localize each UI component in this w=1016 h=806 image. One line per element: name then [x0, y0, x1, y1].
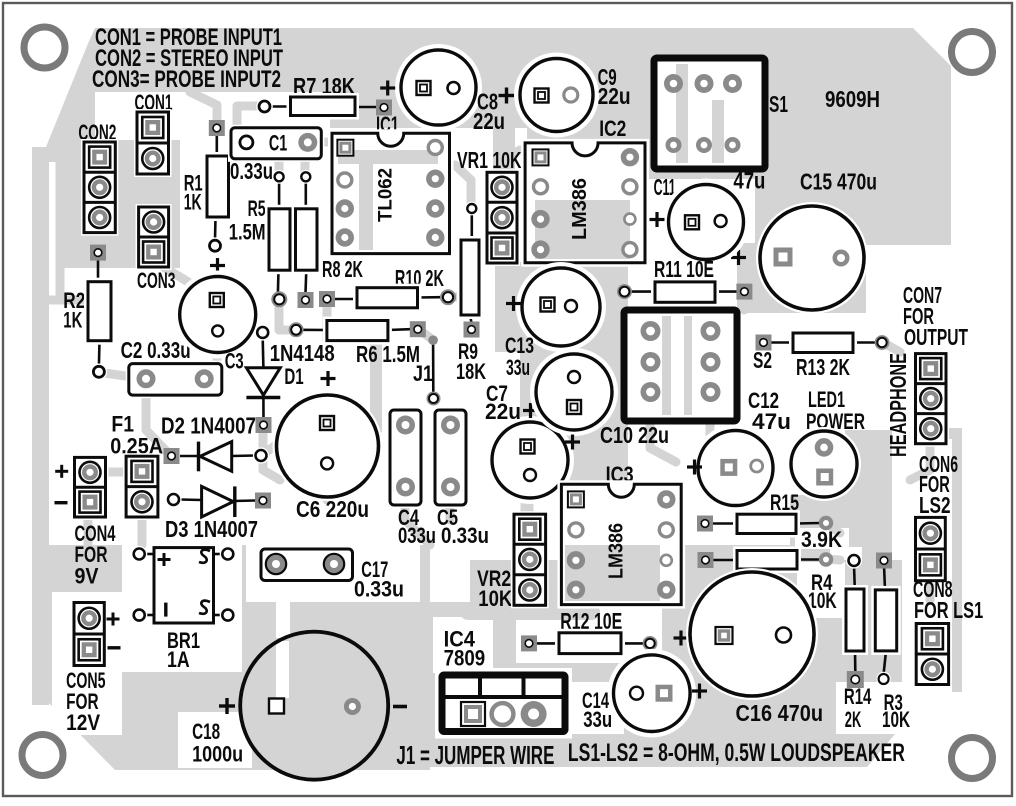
plus C10 — [565, 435, 580, 450]
label C13 — [505, 333, 534, 380]
label D1 — [284, 364, 303, 389]
amplifier IC3 LM386 — [557, 480, 685, 608]
label C15 470u — [800, 169, 877, 195]
legend text CON2 — [95, 45, 283, 72]
capacitor C13 — [516, 262, 606, 352]
svg-text:LS1-LS2 = 8-OHM, 0.5W LOUDSPEA: LS1-LS2 = 8-OHM, 0.5W LOUDSPEAKER — [568, 739, 905, 767]
fuse F1 — [123, 453, 161, 520]
capacitor C15 — [756, 202, 868, 314]
diode D1 — [246, 324, 280, 433]
svg-text:47u: 47u — [752, 409, 791, 434]
svg-text:10K: 10K — [882, 707, 910, 732]
capacitor C12 — [692, 425, 779, 512]
label C6 220u — [296, 496, 369, 522]
resistor R8 — [292, 170, 322, 308]
resistor R2 — [84, 245, 115, 381]
switch S2 — [624, 310, 737, 421]
legend text CON3 — [92, 66, 281, 93]
label C1 — [269, 131, 287, 156]
capacitor C8 — [395, 44, 482, 131]
label F1 — [110, 412, 163, 459]
svg-text:1N4148: 1N4148 — [270, 340, 335, 366]
capacitor C3 — [174, 271, 262, 359]
svg-text:22u: 22u — [598, 83, 631, 109]
resistor R12 — [521, 629, 657, 658]
label C11 — [654, 174, 676, 200]
label C1 value — [230, 158, 273, 184]
resistor R14 — [842, 552, 868, 688]
capacitor C6 — [273, 391, 383, 501]
label VR1 10K — [457, 147, 522, 173]
svg-text:D3 1N4007: D3 1N4007 — [165, 516, 258, 542]
regulator IC4 7809 — [435, 668, 572, 739]
svg-text:C18: C18 — [192, 719, 220, 744]
svg-text:R6 1.5M: R6 1.5M — [356, 341, 420, 367]
mounting hole top-right — [952, 32, 993, 73]
svg-text:D2 1N4007: D2 1N4007 — [161, 413, 256, 439]
amplifier IC2 LM386 — [521, 139, 649, 267]
pour patches inside components — [676, 64, 688, 163]
label R8 2K — [322, 256, 363, 282]
label R15 — [770, 490, 799, 515]
note J1 jumper — [396, 740, 554, 770]
svg-text:R8 2K: R8 2K — [322, 256, 363, 282]
svg-text:22u: 22u — [485, 399, 521, 424]
svg-text:R5: R5 — [248, 196, 266, 221]
mounting hole bottom-left — [22, 735, 63, 776]
svg-text:33u: 33u — [506, 355, 530, 380]
connector CON4 — [72, 454, 109, 520]
connector CON3 — [136, 204, 172, 270]
label R10 2K — [395, 265, 444, 291]
svg-text:S1: S1 — [769, 91, 788, 117]
label D2 1N4007 — [161, 413, 256, 439]
label R3 — [882, 690, 910, 732]
led LED1 — [787, 427, 861, 501]
board id 9609H — [825, 86, 880, 112]
label IC3 — [606, 462, 634, 487]
label C7 — [485, 381, 521, 424]
copper traces — [95, 232, 104, 253]
label R12 10E — [560, 608, 622, 634]
capacitor C10 — [530, 348, 618, 436]
label CON7 — [903, 282, 968, 350]
svg-text:C2 0.33u: C2 0.33u — [121, 337, 191, 363]
svg-text:LM386: LM386 — [606, 523, 628, 579]
svg-text:10K: 10K — [478, 586, 512, 611]
minus C18 — [393, 705, 407, 709]
svg-text:J1 = JUMPER WIRE: J1 = JUMPER WIRE — [396, 740, 554, 770]
svg-text:3.9K: 3.9K — [801, 527, 842, 552]
capacitor C2 — [126, 361, 225, 399]
connector CON6 — [913, 514, 949, 583]
svg-text:0.33u: 0.33u — [441, 523, 489, 548]
label LED1 — [806, 387, 865, 434]
svg-text:D1: D1 — [284, 364, 303, 389]
svg-text:7809: 7809 — [444, 646, 486, 671]
svg-text:FOR LS1: FOR LS1 — [914, 597, 983, 623]
svg-text:IC2: IC2 — [599, 116, 626, 141]
label IC1 — [376, 112, 399, 137]
label R14 — [844, 684, 872, 732]
svg-text:R14: R14 — [844, 684, 872, 709]
label C9 — [598, 64, 631, 109]
minus CON5 — [108, 646, 121, 649]
label CON5 — [66, 668, 105, 735]
label CON8 — [913, 576, 983, 623]
resistor R6 — [289, 317, 426, 345]
label C14 — [582, 688, 612, 732]
svg-text:C10 22u: C10 22u — [600, 422, 669, 448]
svg-text:0.33u: 0.33u — [354, 577, 404, 602]
label 47u S1 — [733, 168, 765, 194]
svg-text:C15 470u: C15 470u — [800, 169, 877, 195]
connector CON2 — [81, 139, 118, 236]
svg-text:C6 220u: C6 220u — [296, 496, 369, 522]
label BR1 — [167, 628, 200, 672]
svg-text:47u: 47u — [733, 168, 765, 194]
svg-text:033u: 033u — [398, 523, 436, 548]
label 3.9K — [801, 527, 842, 552]
pour cutouts — [122, 538, 242, 672]
preset VR1 — [484, 169, 520, 266]
label R11 10E — [654, 256, 714, 282]
capacitor C1 — [228, 125, 324, 162]
svg-text:CON3: CON3 — [137, 268, 176, 293]
svg-text:1000u: 1000u — [192, 742, 243, 767]
capacitor C7 — [486, 416, 574, 504]
capacitor C18 — [240, 632, 388, 780]
plus C8 left — [380, 81, 395, 96]
plus C7 — [523, 403, 538, 418]
capacitor C11 — [663, 179, 750, 266]
label CON1 — [135, 90, 173, 115]
resistor R9 — [457, 202, 483, 338]
plus CON5 — [107, 613, 120, 626]
svg-text:S2: S2 — [753, 347, 772, 373]
diode D2 — [164, 442, 270, 472]
plus C14 — [692, 684, 707, 699]
resistor R15 — [697, 510, 833, 537]
label CON3 — [137, 268, 176, 293]
note LS1-LS2 — [568, 739, 905, 767]
capacitor C5 — [432, 407, 469, 508]
label CON4 — [75, 521, 117, 588]
label C5 — [437, 505, 489, 548]
label VR2 — [477, 566, 512, 611]
label C3 — [225, 349, 244, 374]
label R9 — [456, 339, 486, 384]
svg-text:0.33u: 0.33u — [230, 158, 273, 184]
plus C11 — [650, 212, 665, 227]
resistor R11 — [617, 278, 752, 306]
label CON6 — [919, 451, 958, 518]
svg-text:R13 2K: R13 2K — [796, 354, 850, 380]
capacitor C17 — [258, 546, 356, 584]
label R2 — [63, 288, 85, 333]
capacitor C14 — [608, 649, 697, 738]
svg-text:22u: 22u — [473, 108, 505, 134]
svg-text:18K: 18K — [456, 359, 486, 384]
svg-text:HEADPHONE: HEADPHONE — [885, 353, 911, 457]
label R6 1.5M — [356, 341, 420, 367]
svg-text:J1: J1 — [413, 361, 433, 386]
capacitor C16 — [686, 568, 818, 700]
svg-text:C1: C1 — [269, 131, 287, 156]
label R13 2K — [796, 354, 850, 380]
capacitor C9 — [514, 53, 599, 138]
svg-text:9609H: 9609H — [825, 86, 880, 112]
svg-text:LM386: LM386 — [569, 178, 591, 240]
label C17 — [354, 557, 404, 602]
label R5 — [229, 196, 266, 245]
label C10 22u — [600, 422, 669, 448]
mounting hole top-left — [24, 27, 65, 68]
label S2 — [753, 347, 772, 373]
capacitor C4 — [387, 407, 424, 508]
svg-text:CON3= PROBE INPUT2: CON3= PROBE INPUT2 — [92, 66, 281, 93]
label IC2 — [599, 116, 626, 141]
label CON2 — [78, 120, 116, 145]
op-amp IC1 TL062 — [328, 129, 454, 257]
copper pour ground plane — [95, 28, 951, 128]
label C12 — [748, 388, 791, 434]
plus C18 — [219, 698, 235, 714]
svg-text:OUTPUT: OUTPUT — [904, 324, 968, 350]
preset VR2 — [511, 511, 549, 608]
resistor R3 — [871, 553, 900, 687]
mounting hole bottom-right — [952, 738, 993, 779]
plus C16 — [674, 631, 689, 646]
label J1 — [413, 361, 433, 386]
plus C13 — [506, 296, 521, 311]
resistor R1 — [203, 120, 233, 254]
connector CON5 — [71, 600, 107, 669]
resistor R7 — [256, 93, 392, 120]
bridge rectifier BR1 — [131, 544, 236, 626]
switch S1 — [654, 58, 765, 169]
plus C15 — [731, 250, 746, 265]
svg-text:33u: 33u — [583, 707, 612, 732]
resistor R10 — [319, 284, 456, 312]
svg-text:12V: 12V — [66, 710, 100, 735]
legend text CON1 — [95, 24, 282, 51]
plus CON4 — [55, 465, 68, 478]
svg-text:VR1 10K: VR1 10K — [457, 147, 522, 173]
svg-text:TL062: TL062 — [376, 168, 397, 222]
svg-text:C16 470u: C16 470u — [736, 700, 824, 726]
label R1 — [184, 170, 203, 214]
label C16 470u — [736, 700, 824, 726]
plus C3 — [210, 258, 225, 273]
svg-text:1A: 1A — [167, 647, 190, 672]
label R7 18K — [293, 73, 355, 99]
plus C12 — [687, 460, 702, 475]
minus CON4 — [55, 501, 68, 504]
label HEADPHONE — [885, 353, 911, 457]
svg-text:1.5M: 1.5M — [229, 220, 266, 245]
diode D3 — [165, 486, 271, 517]
connector CON1 — [134, 109, 172, 177]
label C4 — [398, 505, 436, 548]
label C8 — [473, 88, 515, 135]
svg-text:1K: 1K — [63, 308, 82, 333]
label C18 — [192, 719, 243, 767]
label C2 0.33u — [121, 337, 191, 363]
svg-text:9V: 9V — [75, 563, 99, 588]
svg-text:LS2: LS2 — [919, 492, 951, 518]
connector CON8 — [913, 621, 951, 688]
svg-text:2K: 2K — [845, 707, 862, 732]
resistor R4 — [698, 547, 834, 574]
plus C6 — [321, 371, 336, 386]
label S1 — [769, 91, 788, 117]
jumper J1 — [427, 335, 441, 405]
resistor R13 — [756, 329, 890, 357]
connector CON7 — [913, 351, 950, 447]
resistor R5 — [265, 170, 294, 307]
label 1N4148 — [270, 340, 335, 366]
label IC4 — [444, 627, 486, 671]
label R4 — [808, 570, 837, 613]
svg-text:C3: C3 — [225, 349, 244, 374]
svg-text:1K: 1K — [184, 190, 202, 215]
label D3 1N4007 — [165, 516, 258, 542]
